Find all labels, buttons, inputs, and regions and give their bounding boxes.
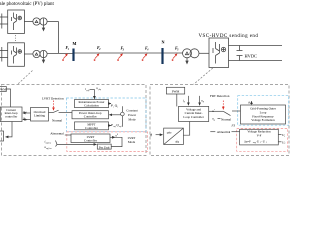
svg-text:controller: controller (5, 115, 18, 119)
svg-text:Per Unit: Per Unit (99, 145, 110, 149)
svg-text:Mode: Mode (128, 140, 136, 144)
svg-text:Δu=F: Δu=F (244, 139, 251, 143)
svg-text:N: N (162, 40, 165, 45)
svg-text:3: 3 (122, 48, 125, 51)
svg-text:θ: θ (248, 101, 250, 105)
svg-text:g: g (184, 101, 185, 103)
svg-text:2: 2 (284, 143, 285, 145)
svg-text:Loop Controller: Loop Controller (183, 115, 204, 119)
svg-text:Abnormal: Abnormal (217, 130, 231, 134)
svg-text:4: 4 (146, 48, 149, 51)
svg-text:0: 0 (117, 134, 118, 136)
svg-text:FS: FS (231, 123, 236, 127)
svg-text:1: 1 (68, 48, 70, 51)
svg-text:PWM: PWM (172, 89, 180, 93)
svg-text:θ: θ (150, 134, 152, 138)
svg-text:5: 5 (177, 48, 179, 51)
svg-text:Limiting: Limiting (34, 114, 45, 118)
svg-text:1: 1 (266, 142, 267, 144)
svg-text:Calculation: Calculation (84, 103, 99, 107)
svg-text:PWM: PWM (0, 88, 6, 92)
svg-text:HVDC: HVDC (245, 54, 258, 59)
svg-text:s,dq: s,dq (86, 90, 89, 92)
svg-text:1: 1 (284, 136, 285, 138)
svg-text:*: * (214, 110, 215, 112)
svg-text:sd: sd (25, 112, 27, 114)
svg-text:V-F: V-F (257, 134, 262, 138)
svg-text:Controller: Controller (85, 126, 99, 130)
svg-text:Controller: Controller (84, 139, 98, 143)
svg-text:s,dq: s,dq (98, 89, 101, 91)
svg-text:Voltage Formation: Voltage Formation (251, 118, 275, 122)
svg-text:s: s (117, 107, 118, 109)
svg-text:Constant: Constant (126, 109, 137, 113)
svg-text:ref,low: ref,low (46, 147, 52, 150)
svg-text:sq: sq (25, 119, 27, 121)
svg-text:ref: ref (119, 125, 122, 128)
svg-text:g: g (214, 119, 215, 121)
svg-text:g: g (203, 101, 204, 103)
svg-text:Controller: Controller (84, 115, 98, 119)
svg-text:Mode: Mode (128, 118, 136, 122)
svg-text:Normal: Normal (221, 118, 231, 122)
svg-text:2: 2 (98, 48, 101, 51)
svg-text:Normal: Normal (52, 118, 62, 122)
svg-text:dq: dq (176, 140, 180, 144)
svg-text:M: M (73, 41, 77, 46)
svg-text:FRT Detection: FRT Detection (210, 94, 230, 98)
svg-text:ale photovoltaic (PV) plant: ale photovoltaic (PV) plant (0, 2, 54, 7)
svg-text:abc: abc (167, 131, 172, 135)
svg-text:LVRT Detection: LVRT Detection (42, 96, 64, 100)
svg-text:VSC-HVDC sending end: VSC-HVDC sending end (199, 34, 259, 39)
svg-text:ref,low: ref,low (46, 141, 52, 144)
svg-text:Abnormal: Abnormal (50, 131, 64, 135)
svg-text:Power: Power (128, 113, 137, 117)
